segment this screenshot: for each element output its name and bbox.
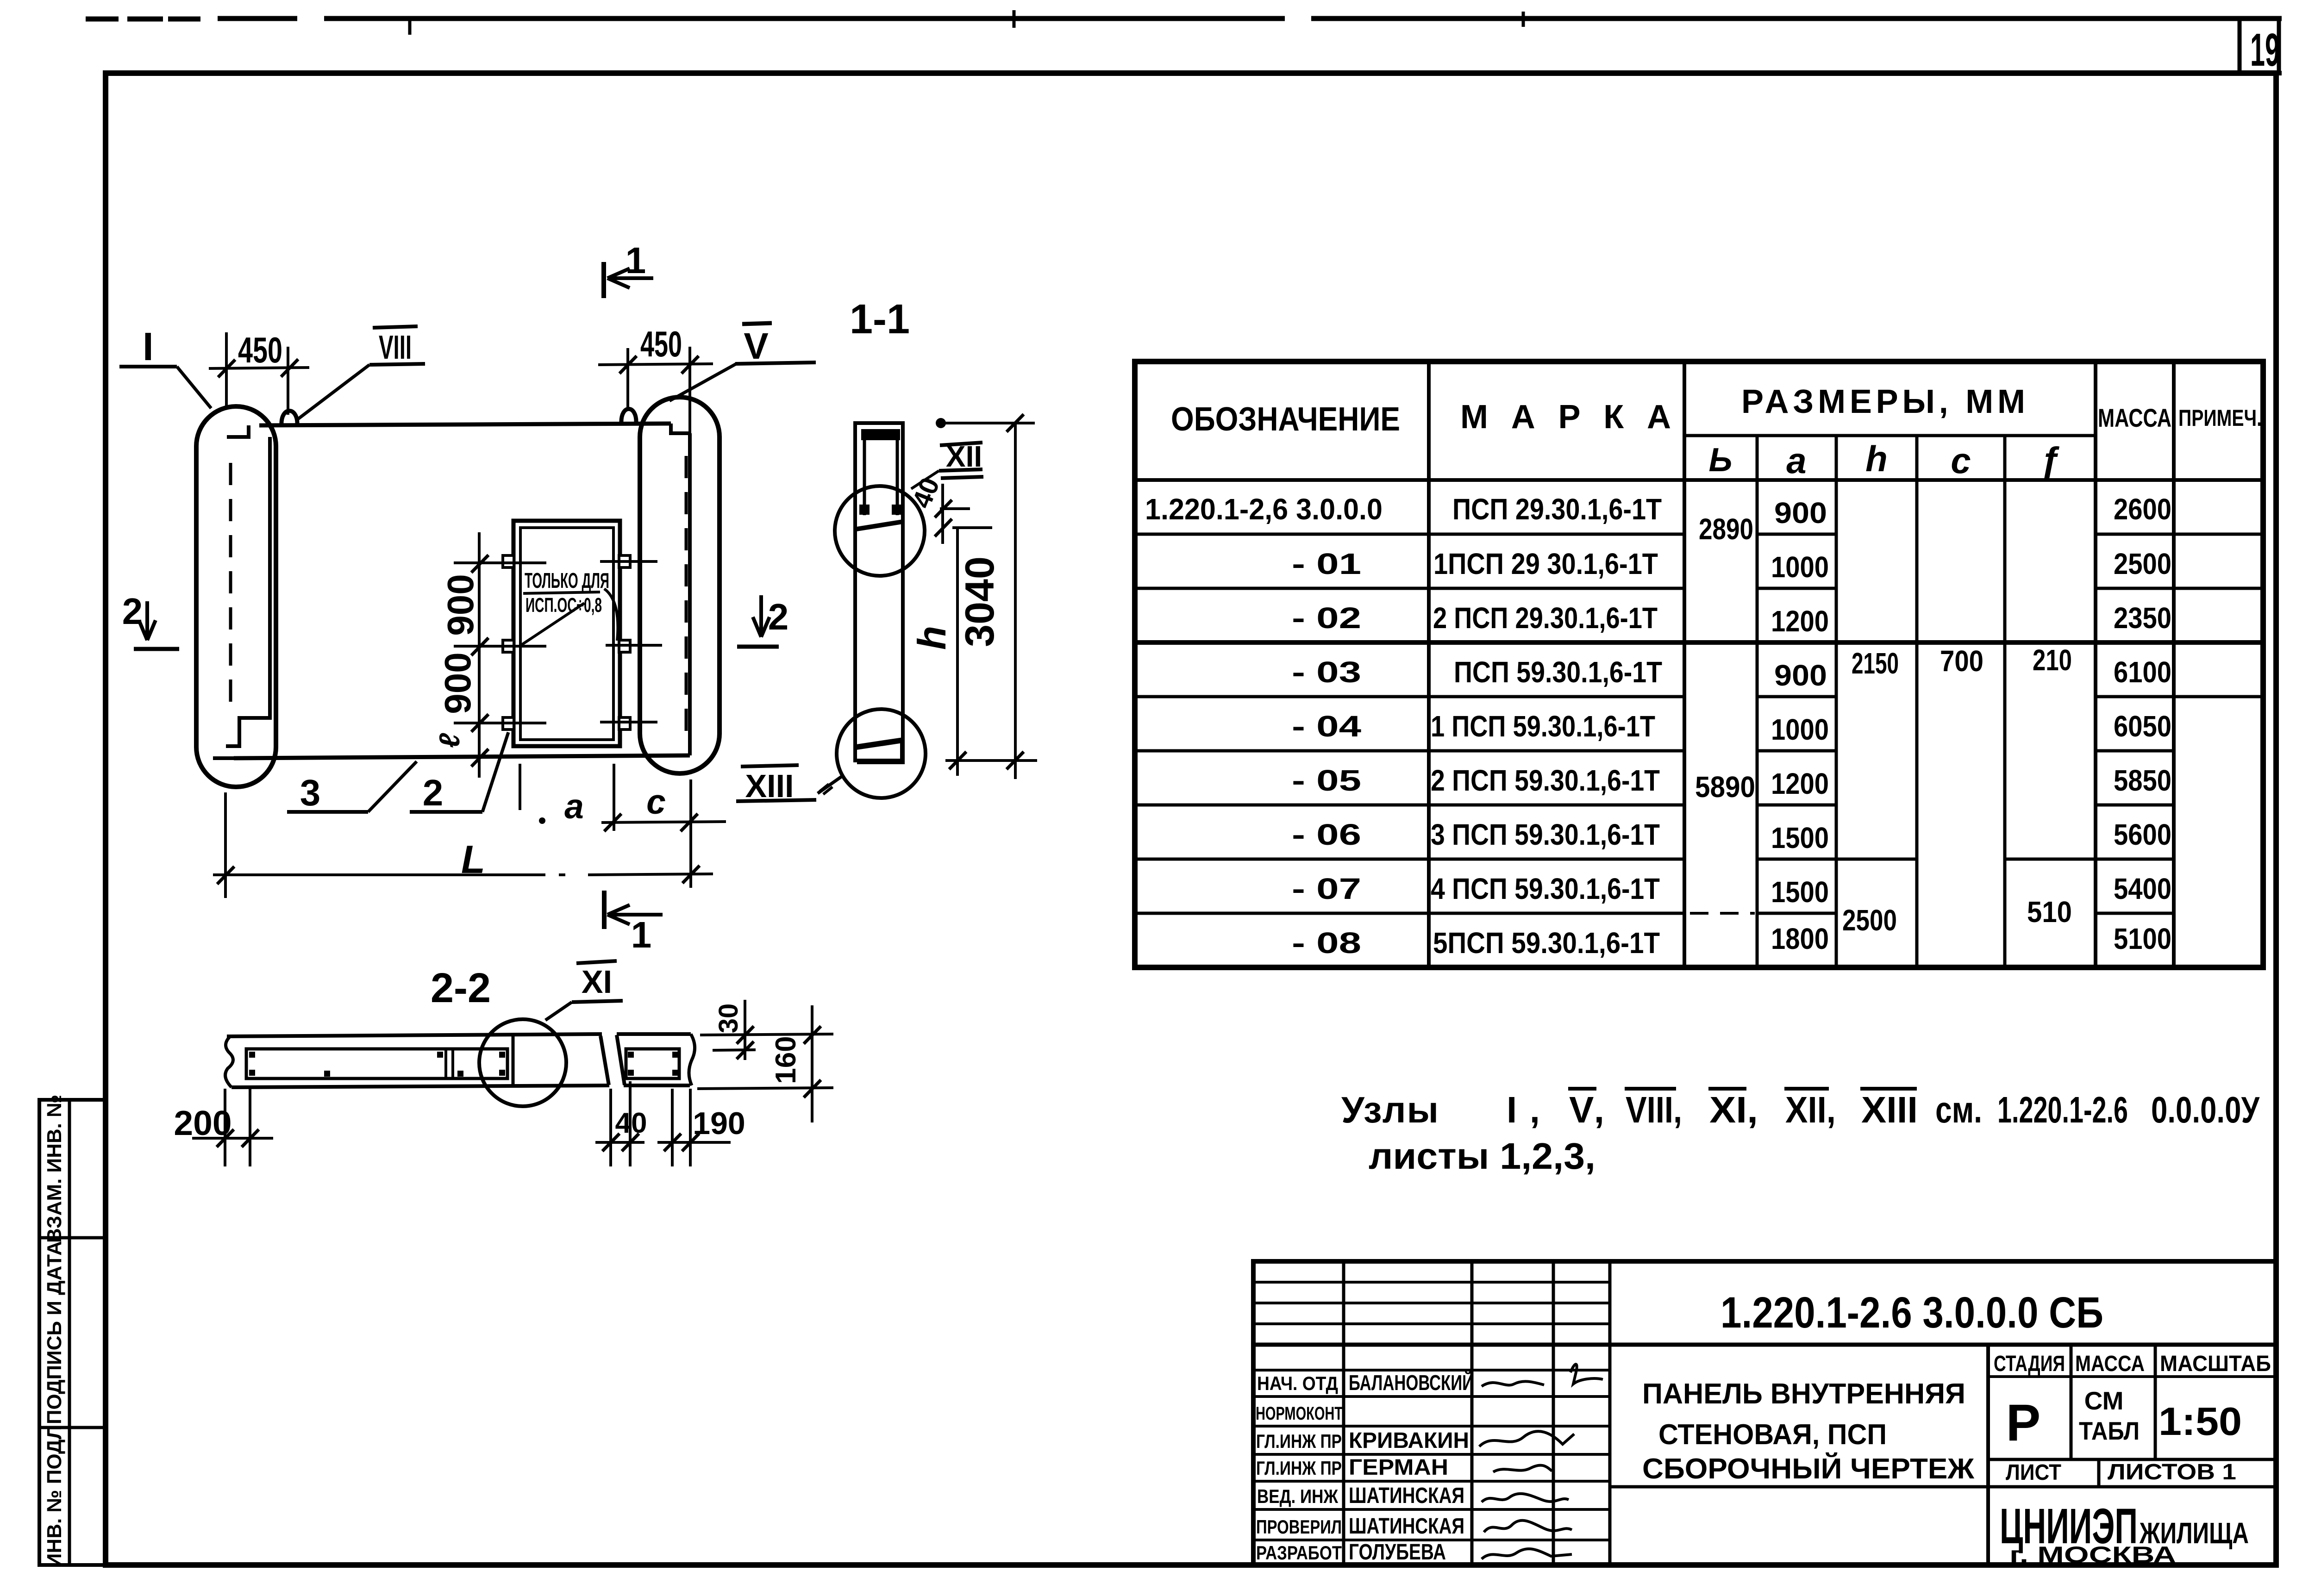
svg-text:1 ПСП 59.30.1,6-1Т: 1 ПСП 59.30.1,6-1Т: [1431, 710, 1655, 743]
section line под big cell: [1253, 1343, 2276, 1347]
svg-text:см.: см.: [1935, 1089, 1982, 1130]
dim 450 right ext line: [688, 347, 691, 433]
table col line обозначение/марка: [1427, 362, 1431, 967]
row line 5: [1135, 749, 2174, 753]
svg-text:г. МОСКВА: г. МОСКВА: [2009, 1542, 2176, 1568]
svg-text:2150: 2150: [1852, 647, 1899, 680]
svg-text:1.220.1-2.6 3.0.0.0 СБ: 1.220.1-2.6 3.0.0.0 СБ: [1721, 1288, 2103, 1337]
panel top-left notch: [227, 425, 249, 437]
registration tick marks on top line: [408, 19, 412, 35]
section mark 2 right underline: [737, 645, 779, 649]
panel top-right notch: [671, 424, 691, 433]
embed tab right mid: [619, 640, 630, 652]
table col line L/a: [1756, 436, 1759, 967]
svg-text:ШАТИНСКАЯ: ШАТИНСКАЯ: [1349, 1514, 1464, 1539]
band right piece inner rect: [626, 1049, 679, 1079]
ext line panel right end: [689, 779, 692, 888]
row line 4: [1135, 695, 2263, 698]
column bottom right post: [900, 742, 904, 760]
table outer border: [1135, 362, 2263, 967]
column corner dot right: [892, 505, 902, 515]
tick line right bottom: [600, 721, 657, 723]
label 3 underline: [287, 810, 368, 814]
svg-text:1ПСП 29 30.1,6-1Т: 1ПСП 29 30.1,6-1Т: [1433, 547, 1658, 580]
rebar dot: [437, 1052, 443, 1058]
vertical dimension line 900s: [478, 532, 481, 778]
slash tick: [602, 1134, 619, 1151]
svg-text:листы 1,2,3,: листы 1,2,3,: [1369, 1135, 1595, 1177]
top grid row 1: [1253, 1281, 1610, 1284]
label 2 underline: [410, 810, 482, 814]
svg-text:ℓ: ℓ: [434, 733, 466, 748]
slash tick: [619, 356, 637, 374]
svg-text:h: h: [910, 626, 954, 650]
slash tick: [804, 1026, 821, 1044]
ext inner top right: [713, 1050, 756, 1050]
svg-text:МАССА: МАССА: [2075, 1352, 2145, 1376]
svg-text:510: 510: [2027, 895, 2072, 929]
label VIII overline: [373, 326, 418, 328]
rebar dot: [457, 1071, 463, 1077]
svg-text:V,: V,: [1569, 1089, 1604, 1130]
signature 3: [1493, 1465, 1552, 1472]
svg-text:190: 190: [693, 1106, 745, 1141]
panel right end face: [688, 433, 692, 755]
lifting loop right: [621, 409, 636, 424]
row line 8 dash in L col: [1690, 912, 1755, 915]
svg-text:2: 2: [768, 596, 789, 637]
svg-text:900: 900: [440, 574, 481, 636]
svg-text:НОРМОКОНТ: НОРМОКОНТ: [1256, 1403, 1343, 1424]
table col line марка/размеры: [1683, 362, 1686, 967]
svg-text:- 01: - 01: [1292, 547, 1361, 580]
panel bottom edge: [234, 755, 690, 758]
dim 3040 line: [1014, 423, 1017, 779]
table header bottom line: [1135, 478, 2263, 482]
slash tick: [682, 1134, 699, 1151]
svg-text:0.0.0.0У: 0.0.0.0У: [2151, 1089, 2260, 1130]
svg-text:2 ПСП 59.30.1,6-1Т: 2 ПСП 59.30.1,6-1Т: [1431, 764, 1660, 797]
ext line: [629, 1081, 632, 1166]
стадия col divider 1: [2070, 1345, 2073, 1459]
section mark 1 top arrow: [607, 268, 653, 288]
node circle XII: [835, 486, 925, 576]
note underline: [523, 592, 600, 593]
svg-text:a: a: [564, 787, 584, 826]
svg-text:I: I: [143, 325, 154, 369]
section mark 2 left underline: [134, 647, 179, 651]
tick line right mid: [606, 644, 662, 647]
svg-text:5100: 5100: [2114, 922, 2171, 955]
stamp col line 1: [1342, 1261, 1345, 1565]
svg-text:200: 200: [174, 1103, 231, 1142]
section mark 2 left arrow: [139, 601, 156, 640]
label VIII underline: [369, 364, 425, 365]
strip middle vertical divider: [68, 1100, 71, 1565]
band solid end divider: [512, 1036, 515, 1085]
label VIII leader: [296, 365, 369, 420]
svg-text:ВЕД. ИНЖ: ВЕД. ИНЖ: [1257, 1485, 1339, 1507]
svg-text:ПРОВЕРИЛ: ПРОВЕРИЛ: [1256, 1516, 1342, 1538]
slash tick: [281, 359, 298, 377]
dim 450 right line: [598, 364, 713, 365]
label XII underline 2: [941, 477, 983, 478]
column wedge line: [857, 522, 903, 529]
left capsule form end: [196, 406, 276, 787]
band bottom edge left piece: [231, 1085, 609, 1087]
svg-text:ПАНЕЛЬ ВНУТРЕННЯЯ: ПАНЕЛЬ ВНУТРЕННЯЯ: [1642, 1378, 1965, 1410]
stamp col line 4: [1608, 1261, 1612, 1565]
svg-text:- 03: - 03: [1292, 655, 1361, 689]
svg-text:- 08: - 08: [1292, 926, 1361, 960]
note leader right curve: [604, 589, 618, 641]
svg-text:ƒ: ƒ: [2040, 440, 2061, 481]
slash tick: [471, 555, 488, 573]
embed tab right bottom: [619, 717, 630, 729]
signature mark top: [1570, 1364, 1603, 1384]
svg-text:XI: XI: [582, 964, 612, 1000]
leader hatch mark: [820, 784, 832, 794]
лист row bottom: [1610, 1485, 2276, 1489]
label 2 leader: [482, 732, 508, 812]
svg-text:1: 1: [626, 240, 646, 281]
svg-text:700: 700: [1940, 644, 1983, 678]
ext band top right: [700, 1034, 833, 1035]
dim 450 right ext loop: [626, 348, 629, 407]
column bottom slant plate: [857, 740, 903, 747]
svg-text:МАССА: МАССА: [2098, 403, 2171, 432]
svg-text:XI,: XI,: [1709, 1089, 1758, 1130]
svg-text:2 ПСП 29.30.1,6-1Т: 2 ПСП 29.30.1,6-1Т: [1433, 601, 1658, 635]
band right piece top: [617, 1032, 691, 1036]
svg-text:VIII: VIII: [379, 329, 412, 366]
svg-text:ШАТИНСКАЯ: ШАТИНСКАЯ: [1349, 1484, 1464, 1508]
rebar dot: [499, 1052, 505, 1058]
rebar dot: [499, 1070, 505, 1076]
signature 4: [1482, 1494, 1569, 1502]
svg-text:450: 450: [238, 330, 282, 370]
svg-text:ЛИСТОВ 1: ЛИСТОВ 1: [2108, 1460, 2236, 1484]
svg-text:КРИВАКИН: КРИВАКИН: [1349, 1428, 1469, 1453]
svg-text:40: 40: [907, 474, 945, 512]
slash tick: [949, 752, 966, 769]
page number box: [2238, 19, 2242, 74]
row line 1: [1135, 533, 2263, 536]
svg-text:2-2: 2-2: [431, 965, 491, 1011]
svg-text:6100: 6100: [2114, 655, 2171, 689]
row line 8: [1135, 912, 2174, 915]
label XII leader: [911, 471, 939, 489]
title block outer: [1253, 1261, 2276, 1565]
tick line right top: [600, 560, 657, 563]
node circle XI: [479, 1019, 566, 1106]
svg-text:ПСП 59.30.1,6-1Т: ПСП 59.30.1,6-1Т: [1454, 655, 1662, 689]
svg-text:ЛИСТ: ЛИСТ: [2006, 1460, 2061, 1485]
svg-text:- 02: - 02: [1292, 601, 1361, 635]
slash tick: [935, 500, 952, 517]
svg-text:1800: 1800: [1771, 922, 1829, 955]
svg-text:1.220.1-2.6: 1.220.1-2.6: [1997, 1089, 2128, 1130]
svg-text:ТАБЛ: ТАБЛ: [2079, 1416, 2140, 1445]
section mark 1 bottom tick: [602, 891, 607, 929]
dim 200 ext right: [249, 1089, 251, 1166]
table col line h/c: [1915, 436, 1919, 967]
svg-text:СТАДИЯ: СТАДИЯ: [1994, 1352, 2065, 1376]
svg-text:РАЗРАБОТ: РАЗРАБОТ: [1256, 1542, 1342, 1564]
slash tick: [622, 1134, 639, 1151]
rebar dot: [672, 1052, 678, 1058]
band slant end in circle: [601, 1036, 609, 1085]
svg-text:1: 1: [631, 914, 652, 955]
top dim line: [941, 422, 1035, 424]
svg-text:НАЧ. ОТД: НАЧ. ОТД: [1257, 1372, 1338, 1394]
band right piece bottom: [624, 1084, 690, 1087]
label XIII leader: [818, 776, 843, 793]
dim 30 vertical line: [744, 1000, 746, 1060]
svg-text:МАСШТАБ: МАСШТАБ: [2160, 1352, 2271, 1376]
signature 5: [1484, 1521, 1572, 1532]
svg-text:2500: 2500: [1842, 904, 1897, 937]
slash tick: [737, 1041, 754, 1059]
band top edge left piece: [227, 1034, 602, 1036]
label XI overline: [576, 961, 617, 963]
svg-text:2600: 2600: [2114, 493, 2171, 526]
tick line left bottom: [454, 722, 546, 724]
column inner wall left: [863, 431, 866, 515]
svg-text:3 ПСП 59.30.1,6-1Т: 3 ПСП 59.30.1,6-1Т: [1431, 818, 1660, 851]
slash tick: [1007, 752, 1024, 769]
dim 40 upper ext: [940, 507, 970, 510]
table col line a/h: [1835, 436, 1838, 967]
svg-text:6050: 6050: [2114, 710, 2171, 743]
svg-text:СТЕНОВАЯ, ПСП: СТЕНОВАЯ, ПСП: [1658, 1419, 1887, 1451]
note leader to mid tab: [521, 603, 584, 645]
dim 3040 bottom line: [945, 759, 1037, 762]
panel top edge: [259, 424, 671, 425]
svg-text:19: 19: [2250, 24, 2280, 76]
stamp col line 2: [1470, 1261, 1474, 1565]
strip divider 1: [39, 1236, 106, 1240]
dim c line: [601, 822, 726, 823]
svg-text:900: 900: [437, 652, 478, 714]
label XI leader: [545, 1002, 572, 1020]
svg-text:1-1: 1-1: [850, 296, 910, 343]
dim 40 lower ext: [952, 526, 992, 529]
svg-text:900: 900: [1774, 496, 1827, 530]
slash tick: [681, 814, 698, 831]
dim L line: [213, 874, 713, 875]
ext line: [689, 1089, 692, 1166]
dim 40-190 line left: [595, 1141, 644, 1144]
panel left end face: [226, 437, 270, 746]
row line 6: [1135, 804, 2174, 807]
svg-text:Ь: Ь: [1709, 442, 1733, 479]
размеры header underline: [1684, 434, 2096, 437]
embed tab left mid: [503, 640, 514, 652]
svg-text:РАЗМЕРЫ, ММ: РАЗМЕРЫ, ММ: [1741, 383, 2025, 420]
right capsule form end: [640, 397, 720, 773]
slash tick: [804, 1080, 821, 1097]
dashed hidden line left: [229, 463, 232, 715]
svg-text:XII,: XII,: [1785, 1089, 1836, 1130]
section mark 1 top tick: [601, 262, 606, 298]
svg-text:- 06: - 06: [1292, 818, 1361, 851]
slash tick: [682, 356, 699, 374]
label XIII underline: [736, 800, 816, 801]
embed tab left bottom: [503, 717, 514, 729]
label XII underline 1: [939, 469, 982, 471]
slash tick: [242, 1129, 259, 1147]
svg-text:5850: 5850: [2114, 764, 2171, 797]
svg-text:210: 210: [2033, 643, 2072, 677]
лист/листов divider: [2097, 1459, 2101, 1487]
ext line: [671, 1089, 674, 1166]
стадия col divider 2: [2154, 1345, 2157, 1459]
slash tick: [935, 519, 952, 536]
right section divider: [1986, 1345, 1990, 1565]
svg-text:5890: 5890: [1695, 770, 1755, 804]
svg-text:c: c: [1951, 440, 1971, 481]
svg-text:ПОДПИСЬ И ДАТА: ПОДПИСЬ И ДАТА: [43, 1241, 66, 1424]
signature 2: [1479, 1431, 1574, 1446]
ext band bottom right: [697, 1088, 833, 1089]
dim 200 line: [192, 1137, 273, 1140]
label XII overline: [940, 443, 982, 445]
svg-text:30: 30: [713, 1004, 744, 1034]
left attachment strip outline: [39, 1100, 106, 1565]
svg-text:3: 3: [300, 772, 321, 813]
label V overline: [742, 323, 772, 324]
svg-text:5ПСП 59.30.1,6-1Т: 5ПСП 59.30.1,6-1Т: [1433, 926, 1660, 960]
svg-text:160: 160: [770, 1036, 802, 1084]
svg-text:450: 450: [640, 324, 682, 364]
svg-text:ГОЛУБЕВА: ГОЛУБЕВА: [1349, 1540, 1446, 1565]
column corner dot left: [859, 505, 870, 515]
section mark 1 bottom arrow: [607, 905, 663, 924]
svg-text:4 ПСП 59.30.1,6-1Т: 4 ПСП 59.30.1,6-1Т: [1431, 872, 1660, 905]
rebar dot: [249, 1070, 255, 1076]
band right piece slant end: [617, 1035, 625, 1085]
slash tick: [471, 638, 488, 655]
svg-text:5600: 5600: [2114, 818, 2171, 851]
svg-text:1:50: 1:50: [2159, 1400, 2242, 1444]
embed tab left top: [503, 555, 514, 567]
dim 450 left ext loop: [287, 347, 289, 415]
table col line c/f: [2003, 436, 2007, 967]
svg-text:1000: 1000: [1771, 550, 1829, 584]
svg-text:МАРКА: МАРКА: [1460, 399, 1671, 436]
svg-text:900: 900: [1774, 659, 1827, 692]
dim 200 ext left: [224, 1089, 226, 1166]
svg-text:БАЛАНОВСКИЙ: БАЛАНОВСКИЙ: [1349, 1371, 1474, 1395]
rebar dot: [628, 1052, 634, 1058]
dim 450 left line: [209, 368, 309, 368]
row line 3 full: [1135, 640, 2263, 645]
svg-text:h: h: [1865, 438, 1888, 479]
svg-text:- 04: - 04: [1292, 710, 1362, 743]
band right break wavy: [689, 1034, 695, 1085]
svg-text:1500: 1500: [1771, 821, 1829, 854]
svg-text:ПРИМЕЧ.: ПРИМЕЧ.: [2178, 405, 2262, 431]
svg-text:ГЕРМАН: ГЕРМАН: [1349, 1455, 1448, 1480]
svg-text:ГЛ.ИНЖ ПР: ГЛ.ИНЖ ПР: [1256, 1430, 1342, 1452]
svg-text:5400: 5400: [2114, 872, 2171, 905]
column top embed bar: [861, 429, 900, 440]
svg-text:V: V: [744, 325, 768, 367]
dim 160 vertical line: [811, 1005, 813, 1122]
signature 1: [1482, 1381, 1544, 1386]
svg-text:СБОРОЧНЫЙ ЧЕРТЕЖ: СБОРОЧНЫЙ ЧЕРТЕЖ: [1642, 1453, 1975, 1485]
top grid row 3: [1253, 1322, 1610, 1325]
lifting loop left: [282, 411, 297, 426]
svg-text:XIII: XIII: [1861, 1089, 1918, 1130]
band left break end: [225, 1036, 233, 1087]
label I underline: [119, 365, 177, 368]
svg-text:VIII,: VIII,: [1626, 1089, 1682, 1130]
ext line door right: [613, 764, 615, 831]
rebar dot: [249, 1052, 255, 1058]
svg-text:ОБОЗНАЧЕНИЕ: ОБОЗНАЧЕНИЕ: [1171, 401, 1400, 438]
column inner wall right: [896, 431, 899, 515]
strip divider 2: [39, 1426, 106, 1429]
svg-text:Узлы: Узлы: [1341, 1089, 1439, 1130]
slash tick: [471, 714, 488, 732]
svg-text:1.220.1-2,6 3.0.0.0: 1.220.1-2,6 3.0.0.0: [1145, 493, 1383, 526]
row line 7: [1135, 858, 2174, 861]
dim 40-190 line right: [657, 1141, 731, 1144]
svg-text:ИСП.ОС÷0,8: ИСП.ОС÷0,8: [526, 594, 602, 617]
svg-text:ГЛ.ИНЖ ПР: ГЛ.ИНЖ ПР: [1256, 1457, 1342, 1479]
svg-text:- 05: - 05: [1292, 764, 1361, 797]
door opening outer: [513, 521, 620, 746]
svg-text:c: c: [646, 782, 666, 821]
svg-text:2: 2: [423, 772, 444, 813]
svg-text:ПСП 29.30.1,6-1Т: ПСП 29.30.1,6-1Т: [1452, 493, 1662, 526]
inner cell divider double: [446, 1049, 453, 1079]
slash tick: [604, 814, 621, 831]
panel left bottom step: [213, 756, 234, 760]
stamp col line 3: [1552, 1261, 1555, 1565]
door opening inner: [520, 528, 613, 740]
dim 40 vertical line: [941, 484, 944, 544]
label V leader: [669, 364, 736, 401]
svg-text:1000: 1000: [1771, 713, 1829, 746]
slash tick: [217, 1129, 234, 1147]
slash tick: [217, 867, 234, 884]
svg-text:2350: 2350: [2114, 601, 2171, 635]
label 3 leader: [368, 761, 417, 812]
row line 2: [1135, 587, 2263, 590]
embed tab right top: [619, 555, 630, 567]
dim h line: [956, 528, 959, 776]
label XI underline: [572, 1001, 623, 1002]
dim L ext left: [224, 792, 227, 898]
svg-text:- 07: - 07: [1292, 872, 1361, 905]
label XIII overline: [741, 765, 799, 767]
svg-text:ВЗАМ. ИНВ. №: ВЗАМ. ИНВ. №: [43, 1095, 66, 1243]
svg-text:1500: 1500: [1771, 875, 1829, 909]
ext line: [609, 1089, 612, 1166]
slash tick: [664, 1134, 681, 1151]
лист row top: [1988, 1458, 2276, 1461]
svg-text:I,: I,: [1507, 1089, 1540, 1130]
svg-text:СМ: СМ: [2084, 1386, 2124, 1415]
stray mark dot: [539, 817, 545, 824]
стадия header bottom: [1988, 1375, 2276, 1378]
sheet top edge dashed line: [86, 19, 2282, 19]
section mark 2 right arrow: [753, 595, 770, 637]
tick line left top: [454, 561, 546, 564]
